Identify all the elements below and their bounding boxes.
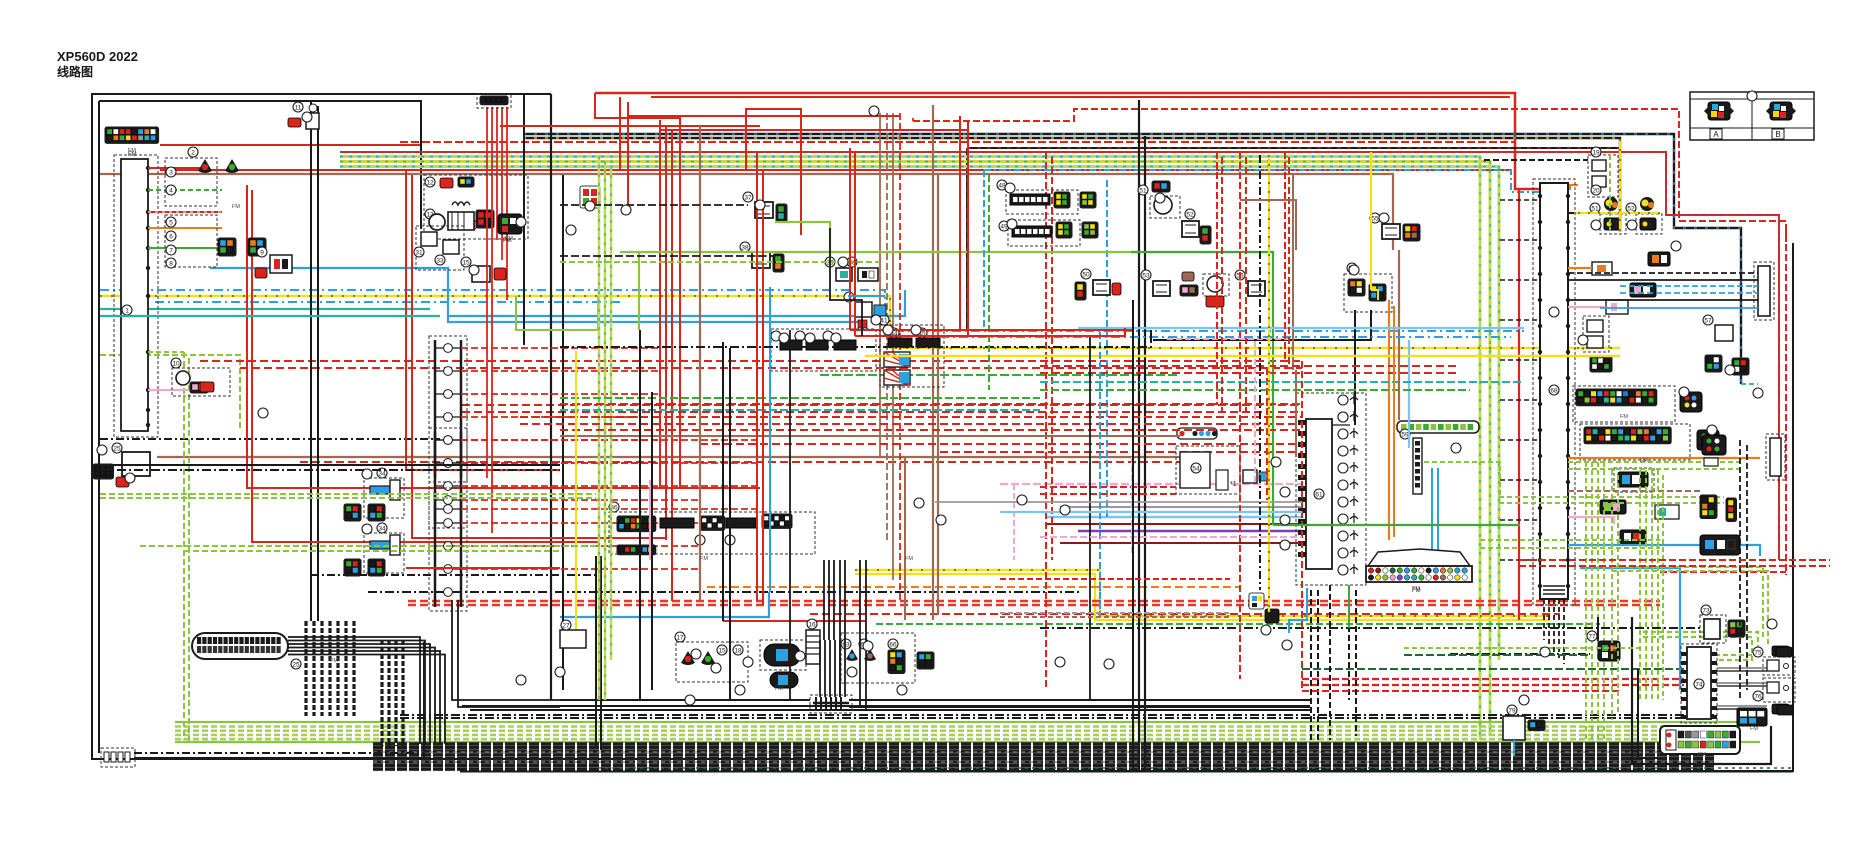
wire comb up 1 [824,640,826,697]
wire pink row 537 [1040,536,1302,538]
wire bottom black hatch 5 [373,760,1714,763]
wire red dash mid a [200,360,1302,362]
wire bottom black hatch 1 [373,746,1714,749]
node 8 [166,258,176,268]
connector item12b [458,177,474,187]
wire vert redbrown fan4 [899,113,901,600]
wire bus bottom 3 [1558,599,1560,658]
wire bus stub left 9 [1500,559,1540,561]
wire red vert 1046 ext [1045,600,1047,690]
component 79 box [1503,716,1525,740]
wire green C right2 [1643,637,1752,660]
wire red band low a [408,600,1660,602]
svg-text:68: 68 [1550,388,1558,395]
connector 79b [1528,720,1545,731]
wire blue low [560,592,769,617]
wire red stub [148,167,200,169]
wire red dash mid c [462,404,1302,406]
wire bottom gray hatch b [373,761,1714,763]
wire orange stub [148,227,222,229]
svg-text:2: 2 [191,150,195,157]
wire hatch vert b1 [387,640,390,746]
wire black vert 1740 [1739,440,1741,700]
wire red dash vert 1786b [1785,230,1787,242]
wire red vert 763 [762,170,764,605]
wire green net vert2 1 [1645,470,1647,700]
wire yellow low [855,570,1550,616]
wire blue dash row 293 [1620,292,1758,294]
node right 52 [1626,203,1636,213]
relay item37 [755,202,773,218]
motor circle item13 [429,214,445,230]
box item17 cluster [676,642,748,682]
wire r/w stub [148,211,222,213]
connector small right 4 [1620,530,1646,544]
connector item25a [93,464,114,479]
wire gray row 502 [935,501,1302,503]
wire blue solid left [210,268,860,322]
wire bottom black hatch 4 [373,757,1714,760]
connector 6pin btm right [1737,708,1767,726]
box around top connector [477,94,511,108]
box item14 lamp [760,640,806,670]
small conn right edge b [1777,705,1793,715]
svg-text:FM: FM [232,204,240,210]
connector Pel [498,214,522,244]
connector 57a [1348,279,1365,296]
wire green net h1 [1499,496,1724,498]
svg-text:FM: FM [128,148,136,154]
connector dark right low [1700,535,1740,555]
box item1 dashed [114,155,158,437]
wire red mesh 424 [520,423,1302,425]
motor icon 76b [1772,704,1789,714]
svg-text:75: 75 [1754,650,1762,657]
wire dark red band [1046,523,1302,525]
node 6 [166,231,176,241]
legend connector B [1766,102,1796,139]
wire red h 116 [628,115,900,117]
wire red vert 1240b [1239,405,1241,679]
wire vert red left mid3 [671,130,673,601]
connector item8a [218,238,236,256]
relay 57r [1715,325,1733,341]
wire vert red left mid2 [665,125,667,540]
wire 79 cyan [1513,740,1515,756]
outer frame bottom right [862,243,1793,771]
wire black dash low2 [1040,627,1701,629]
wire red mesh 430 [560,429,1302,431]
relay item15 [472,266,490,282]
node 6c [823,331,833,341]
wire 74 out 2b [1717,708,1767,710]
svg-text:52: 52 [1186,212,1194,219]
wire bus skyblue 2 [1580,568,1680,690]
svg-text:27: 27 [562,623,570,630]
box 27 left [560,630,586,648]
wire gray band [1060,506,1302,508]
box 74 [1681,644,1717,723]
svg-text:5: 5 [169,220,173,227]
svg-text:FM: FM [1640,458,1648,464]
box 57 [1344,274,1392,312]
wire sky solid 328 [1078,327,1524,329]
fuse pair right [1587,320,1603,348]
wire red vert 757 [756,152,758,601]
connector right col low b [1726,498,1737,522]
wire green net v7 [1609,155,1611,230]
wire 74 out 1b [1717,685,1767,687]
connector 55b [1403,224,1420,241]
relay item38 [752,252,770,268]
svg-text:17: 17 [676,635,684,642]
connector pink right [1630,283,1656,297]
box 19-20 [1588,155,1618,197]
node 64 [859,639,869,649]
wire red fan ext2 [491,205,493,533]
svg-text:31: 31 [415,250,423,257]
wire R/G loop [913,109,1786,575]
svg-text:4: 4 [169,188,173,195]
connector orange right [1648,252,1670,266]
svg-text:52: 52 [1627,206,1635,213]
wire comb left a [560,699,810,701]
svg-text:18: 18 [734,648,742,655]
relay item25 box [122,452,150,476]
box injector 0 [364,478,404,518]
small cap right [1704,458,1718,466]
connector 57b [1369,284,1386,301]
lamp 17a [681,651,695,665]
wire comb up 0 [819,640,821,697]
fuse 20 [1592,176,1606,187]
node 77 [1587,631,1597,641]
vertical bar right [1770,438,1781,476]
wire green row 494 [100,493,596,495]
svg-text:51: 51 [1591,206,1599,213]
connector pink 53 [1180,285,1198,296]
node 44 [889,328,899,338]
wire red vert 1285 [1284,152,1286,361]
wire green net vert2 3 [1657,470,1659,700]
wire red loop B [627,102,629,205]
wire orange sensor [1568,267,1592,269]
wire red dash top a [400,141,1515,143]
wire green turn 989 [988,175,990,390]
connector red item12 [440,178,453,188]
connector item14 [476,210,494,228]
wire chartreuse drop 1 [1479,156,1482,740]
wire pink band [1000,483,1302,485]
wire lgreen path A [516,296,598,330]
wire green net vert2 0 [1639,470,1641,700]
wire bus skyblue 1 [1568,545,1760,556]
box right lamp 51 [1600,214,1626,234]
svg-text:*1: *1 [1230,481,1237,488]
wire yellow elbow 57 [1371,290,1378,300]
connector 50c [1112,283,1121,295]
relay item33 [443,240,459,254]
wire bottom green dotted [598,767,1793,769]
box items63-67 [841,633,915,683]
wire black bottom stub a [134,752,424,754]
wire black elbow 830 [830,228,862,336]
wire bottom black 2 [470,709,1310,711]
connector 52b [1200,226,1211,244]
connector red item25b [116,477,129,487]
wire pink vert 650 [649,484,651,560]
wire yellow right lamps [1568,212,1660,214]
fuse strip 48 [1010,194,1050,205]
wire red grid v2 [1245,157,1247,412]
node 10 [171,358,181,368]
fuse ladder 26-30 [429,488,467,611]
wire bottom green solid 2 [175,741,1760,743]
wire green row 546 [140,545,596,547]
svg-text:53: 53 [1142,273,1150,280]
node 27b [561,620,571,630]
wire green mesh 398 [560,397,1040,399]
wire cyan dash 330 [884,331,886,336]
wire red band 67 ext [1302,690,1620,692]
svg-text:38: 38 [741,245,749,252]
wire black vert 640b [639,330,641,700]
box comb junction [810,695,852,713]
wire black dash 575 [311,574,596,576]
wire vert black pair a [310,100,312,621]
box fuse pair right [1583,316,1609,352]
wire green vert 1349b [1348,585,1350,628]
wire hatch vert b3 [401,640,404,746]
box grid B [1580,424,1690,460]
svg-text:25: 25 [292,662,300,669]
wire red dash right low [1660,571,1786,573]
wire vert brown fan2 [886,113,888,540]
wire vert black 1349 [1348,590,1350,700]
wire red h 336 [855,328,1125,336]
relay item11 [306,104,319,129]
wire green stub2 [148,247,222,249]
wire vert brown fan1 [879,113,881,457]
wire green net h8 [1568,468,1740,470]
wire blk row 280 [1568,279,1758,281]
wire brown ladder [769,360,771,457]
wire ladder16 out 4 [461,439,660,441]
wire blue dash mid 2 [155,301,620,303]
connector 48g [1080,192,1096,208]
wire vert brown fan3 [892,113,894,580]
wire red/green top [340,152,1779,560]
wire teal row 315 [100,315,440,317]
wire dark green low [1302,668,1687,670]
node 66 [888,639,898,649]
legend connector A [1704,102,1734,139]
wire bottom gray hatch a [373,751,1714,753]
wire hatch vert a6 [352,621,355,716]
injector bar 0 [370,480,400,500]
svg-text:11: 11 [295,105,302,112]
horn 51 [1154,196,1172,214]
connector sensor r2 [1606,300,1628,314]
wire black vert 1090 [1089,336,1091,700]
wire vert black 829 [828,560,830,640]
fuse 19 [1592,160,1606,171]
wire green vert 1480b [1479,156,1482,300]
ECU pins left [1298,420,1306,557]
connector item8b [248,238,266,256]
wire blk row 300 [1568,299,1758,301]
wire chartreuse vert 599 [598,156,601,700]
wire bottom black 1 [462,705,1310,707]
hatched block B [884,370,910,385]
wire bottom frame line [460,771,1793,773]
wire red vert 1267 [1266,368,1268,500]
wire bus stub left 8 [1500,519,1540,521]
connector right col low a [1700,495,1717,519]
wire bottom black dash 2 [400,717,1714,719]
wire horiz black 648 [1404,647,1643,649]
relay item31 [421,232,437,246]
relay 55 [1382,224,1400,239]
node 41 [879,315,889,325]
wire vert red fan2 [491,107,493,205]
wire hatch vert a3 [328,621,331,716]
wire black vert 840 [839,560,841,697]
connector red item15sq [580,186,600,208]
wire chartreuse vert 611 [610,166,613,660]
node 51 [1138,185,1148,195]
connector red item11b [288,118,301,127]
box 6x cluster [771,329,876,371]
wire vert red fan4 [501,107,503,260]
connector hex right [1702,435,1726,455]
wire red vert 855 [854,152,856,336]
connector inj 0b [368,504,385,521]
wire red vert 850 [849,148,851,330]
wire green stub [148,189,222,191]
wire vert black 1311 [1310,590,1312,740]
node 15 [461,257,471,267]
wire bus stub left 1 [1500,239,1540,241]
wire green mid long2 [1131,252,1273,525]
node 45 [917,328,927,338]
box item31-34 [416,226,464,270]
wire red vert 1302 [1301,361,1303,690]
wire bus orange [1568,457,1760,459]
node 59 [1400,429,1410,439]
node 48 [997,180,1007,190]
node 7 [166,245,176,255]
node 18 [733,645,743,655]
wire black vert 1747 [1746,445,1748,690]
box 41 cluster [880,325,944,387]
relay cyan cluster [855,302,886,328]
lamp icon right 52 [1640,197,1654,211]
wire vert red left mid [659,120,661,488]
wire red h 330 [850,329,1133,331]
svg-text:3: 3 [169,170,173,177]
wire brown 1296b [1240,200,1296,250]
node 33a [435,255,445,265]
wire chartreuse vert 605 [604,161,607,700]
node 13 [425,209,435,219]
wire green net h3 [1480,539,1660,541]
wire black vert 866 [865,560,867,710]
wire red vert 1289 [1288,157,1290,368]
connector small right 2 [1600,500,1626,514]
node 68 [1549,385,1559,395]
wire blue dash drop 1741 [1741,383,1758,385]
wire red h 560 right [1519,559,1830,561]
wire green dash stub [148,351,184,353]
wire ladder22 out 1 [461,462,760,464]
wire black h 465 [95,464,560,466]
wire vert red dash 1052 [1051,157,1053,560]
svg-text:12: 12 [426,180,434,187]
connector item40 [858,268,878,281]
fuse strip 49 [1012,226,1052,237]
box item36 big [609,512,815,554]
injector bar 1 [370,535,400,555]
wire bus brown dash [1568,490,1700,492]
svg-text:76: 76 [1754,694,1762,701]
wire ladder22 out 3 [461,508,760,510]
wire orange 20 [1570,185,1578,190]
wire black vert 723 [722,342,724,621]
wire horiz black 654 [1450,653,1590,655]
wire red dash mid f [940,451,1302,453]
box item2 cluster [165,158,217,206]
wire black vert 652 [651,392,653,690]
node 6b [795,331,805,341]
wire oval-out 2 [288,644,430,744]
svg-text:XP560D 2022: XP560D 2022 [57,49,138,64]
wire cyan mesh 410 [560,409,1040,411]
wire oval-out 4 [288,651,440,744]
node 76 [1753,691,1763,701]
wire green dash ECU2 [1424,462,1500,497]
connector red pins item15 [583,189,597,205]
wire ladder16 out 0 [461,347,660,349]
wire hatch vert b2 [394,640,397,746]
wire red dash 67x [1302,678,1684,680]
wire vert cyan trap a [1431,468,1433,552]
node 17 [675,632,685,642]
wire red dash mid d [462,411,1302,413]
connector right grid [1590,356,1612,372]
wire chartreuse band 2 [340,165,1500,168]
box right bus [1533,179,1575,605]
wire chartreuse band 1 [340,160,1491,163]
wire vert red pair b [412,175,665,538]
wire red elbow C [595,93,680,160]
wire red vert 960 [959,116,961,330]
wire brown harness [100,174,1393,250]
wire red vert 700 [699,126,701,600]
wire red dash v 1222 [1221,157,1223,412]
node 73 [1701,605,1711,615]
wire yellow low b [855,574,1550,620]
wire red loop A [619,97,621,170]
wire red main top [595,93,1540,189]
wire 74 out 2a [1717,705,1767,707]
wire red mesh 494 [1040,493,1176,495]
thermo 54c [1207,276,1223,292]
svg-text:19: 19 [1592,150,1600,157]
wire red under band [160,169,1512,171]
wire bus bottom 0 [1543,599,1545,640]
wire black dash low [368,591,1080,593]
